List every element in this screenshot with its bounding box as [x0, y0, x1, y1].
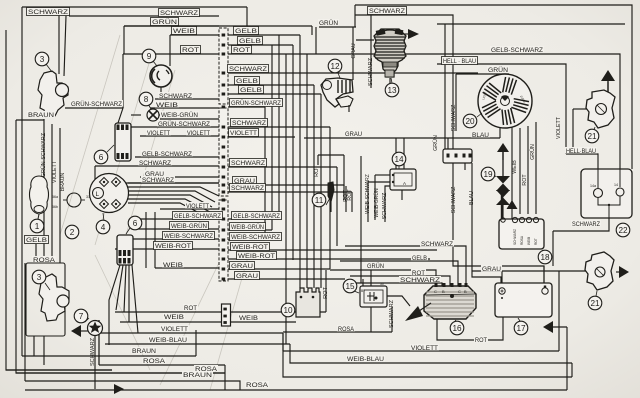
svg-text:GELB: GELB [236, 78, 258, 85]
svg-text:VIOLETT: VIOLETT [230, 130, 257, 137]
svg-text:12: 12 [330, 62, 340, 71]
svg-text:GELB: GELB [240, 87, 262, 94]
svg-text:SCHWARZ: SCHWARZ [232, 120, 266, 127]
svg-text:2: 2 [70, 228, 75, 237]
svg-text:VIOLETT: VIOLETT [186, 203, 209, 210]
svg-text:4: 4 [101, 223, 106, 232]
svg-text:SCHWARZ: SCHWARZ [142, 177, 174, 184]
svg-text:GRAU: GRAU [345, 131, 362, 138]
svg-text:ROT: ROT [475, 337, 487, 344]
svg-text:19: 19 [483, 170, 493, 179]
svg-text:GELB: GELB [412, 255, 427, 262]
svg-text:9: 9 [147, 52, 152, 61]
svg-text:3: 3 [37, 273, 42, 282]
svg-text:56b: 56b [52, 205, 58, 209]
svg-text:1: 1 [35, 222, 40, 231]
svg-text:GELB-SCHWARZ: GELB-SCHWARZ [491, 47, 543, 54]
svg-text:SCHWARZ: SCHWARZ [368, 57, 374, 86]
svg-text:GRÜN-SCHWARZ: GRÜN-SCHWARZ [71, 101, 122, 108]
svg-text:13: 13 [387, 86, 397, 95]
svg-text:L: L [96, 191, 100, 198]
svg-text:ROT: ROT [323, 287, 329, 299]
svg-text:BRAUN: BRAUN [28, 112, 54, 119]
svg-text:22: 22 [618, 226, 628, 235]
svg-text:15: 15 [345, 282, 355, 291]
svg-text:GRÜN-SCHWARZ: GRÜN-SCHWARZ [40, 132, 47, 177]
svg-text:6: 6 [133, 219, 138, 228]
svg-text:C: C [434, 289, 437, 294]
svg-text:VIOLETT: VIOLETT [161, 326, 188, 333]
svg-text:WEIB-ROT: WEIB-ROT [232, 244, 268, 251]
svg-text:SCHWARZ: SCHWARZ [231, 160, 265, 167]
svg-text:SCHWARZ: SCHWARZ [421, 241, 453, 248]
svg-text:ROT: ROT [314, 165, 320, 177]
svg-text:VIOLETT: VIOLETT [411, 345, 438, 352]
svg-text:GRÜN: GRÜN [319, 20, 338, 27]
svg-text:SCHWARZ: SCHWARZ [389, 299, 395, 328]
svg-text:GRÜN: GRÜN [529, 144, 536, 160]
svg-text:17: 17 [516, 324, 526, 333]
svg-text:WEIB-SCHWARZ: WEIB-SCHWARZ [231, 234, 280, 241]
svg-text:14a: 14a [590, 184, 596, 188]
svg-text:WEIB: WEIB [239, 315, 258, 322]
svg-text:GRAU: GRAU [236, 273, 258, 280]
svg-text:SCHWARZ: SCHWARZ [400, 277, 440, 284]
svg-text:20: 20 [465, 117, 475, 126]
svg-text:BRAUN: BRAUN [132, 348, 156, 355]
svg-text:WEIB-SCHWARZ: WEIB-SCHWARZ [164, 233, 213, 240]
svg-text:ROSA: ROSA [143, 358, 166, 365]
svg-text:VIOLETT: VIOLETT [52, 160, 58, 183]
svg-text:WEIB: WEIB [164, 314, 184, 321]
svg-text:ROT: ROT [182, 47, 199, 54]
svg-text:BRAUN: BRAUN [183, 372, 212, 379]
svg-text:21: 21 [587, 132, 597, 141]
svg-text:WEIB-ROT: WEIB-ROT [238, 253, 275, 260]
svg-text:GRÜN: GRÜN [488, 67, 508, 74]
svg-text:GELB-SCHWARZ: GELB-SCHWARZ [233, 213, 280, 220]
svg-text:SCHWARZ: SCHWARZ [231, 185, 264, 192]
svg-text:GELB-SCHWARZ: GELB-SCHWARZ [174, 213, 221, 220]
svg-text:GRÜN-SCHWARZ: GRÜN-SCHWARZ [231, 100, 281, 107]
svg-text:GELB: GELB [235, 28, 257, 35]
svg-text:SCHWARZ: SCHWARZ [139, 160, 171, 167]
svg-text:WEIB-ROT: WEIB-ROT [155, 243, 191, 250]
svg-text:21: 21 [590, 299, 600, 308]
svg-text:SCHWARZ: SCHWARZ [90, 337, 96, 366]
svg-text:ROSA: ROSA [246, 382, 269, 389]
svg-text:ROT: ROT [534, 238, 538, 245]
svg-text:SCHWARZ: SCHWARZ [369, 8, 405, 15]
svg-text:SCHWARZ: SCHWARZ [28, 9, 68, 16]
svg-text:SCHWARZ: SCHWARZ [451, 104, 457, 131]
svg-text:GELB: GELB [239, 38, 261, 45]
svg-text:ROT: ROT [522, 174, 528, 186]
svg-text:GELB-SCHWARZ: GELB-SCHWARZ [142, 151, 192, 158]
svg-text:ROT: ROT [184, 305, 197, 312]
svg-text:16: 16 [452, 324, 462, 333]
svg-text:6: 6 [99, 153, 104, 162]
svg-text:B: B [464, 289, 467, 294]
svg-text:11: 11 [315, 196, 324, 205]
svg-text:ROSA: ROSA [338, 326, 355, 333]
svg-text:C: C [458, 289, 461, 294]
svg-text:GRAU: GRAU [482, 266, 501, 273]
svg-text:GRÜN: GRÜN [367, 263, 384, 270]
svg-text:BLAU: BLAU [469, 191, 475, 205]
svg-text:7: 7 [79, 312, 84, 321]
svg-text:ROSA: ROSA [33, 257, 56, 264]
svg-text:14: 14 [394, 155, 404, 164]
svg-text:WEIB-GRÜN: WEIB-GRÜN [231, 224, 264, 231]
svg-text:GELB: GELB [26, 237, 47, 244]
svg-text:8: 8 [144, 95, 149, 104]
svg-text:ROT: ROT [233, 47, 250, 54]
svg-text:SCHWARZ: SCHWARZ [513, 229, 517, 245]
svg-text:WEIB: WEIB [173, 28, 195, 35]
svg-text:ROT: ROT [412, 270, 425, 277]
svg-text:18: 18 [540, 253, 550, 262]
svg-text:WEIB-SCHWARZ: WEIB-SCHWARZ [365, 174, 371, 214]
svg-text:WEIB: WEIB [527, 237, 531, 245]
svg-text:A: A [403, 181, 406, 186]
svg-text:GRÜN: GRÜN [432, 135, 439, 151]
svg-text:WEIB-GRÜN: WEIB-GRÜN [171, 223, 207, 230]
svg-text:VIOLETT: VIOLETT [556, 116, 562, 139]
svg-text:BLAU: BLAU [472, 132, 489, 139]
svg-text:WEIB: WEIB [512, 160, 518, 174]
svg-text:3: 3 [40, 55, 45, 64]
svg-text:GRÜN-SCHWARZ: GRÜN-SCHWARZ [158, 121, 210, 128]
svg-text:WEIB-GRÜN: WEIB-GRÜN [161, 112, 198, 119]
svg-text:B: B [442, 289, 445, 294]
svg-text:WEIB-GRÜN: WEIB-GRÜN [373, 188, 380, 218]
svg-text:VIOLETT: VIOLETT [187, 130, 210, 137]
svg-text:SCHWARZ: SCHWARZ [451, 186, 457, 213]
svg-text:SCHWARZ: SCHWARZ [572, 221, 600, 228]
svg-text:SCHWARZ: SCHWARZ [160, 10, 198, 17]
svg-text:B7: B7 [361, 289, 365, 293]
svg-text:GRÜN: GRÜN [152, 19, 177, 26]
svg-text:30: 30 [380, 282, 384, 286]
svg-text:WEIB: WEIB [156, 102, 178, 109]
svg-text:ROT: ROT [347, 189, 353, 201]
svg-text:SCHWARZ: SCHWARZ [159, 93, 192, 100]
svg-text:VIOLETT: VIOLETT [147, 130, 170, 137]
svg-text:14: 14 [614, 183, 618, 187]
svg-text:10: 10 [283, 306, 293, 315]
svg-text:BRAUN: BRAUN [60, 173, 66, 192]
svg-text:WEIB: WEIB [163, 262, 183, 269]
svg-text:GRAU: GRAU [351, 43, 357, 58]
svg-text:HELL·BLAU: HELL·BLAU [566, 148, 596, 155]
svg-text:HELL · BLAU: HELL · BLAU [443, 58, 476, 65]
svg-text:ROSA: ROSA [520, 235, 524, 245]
svg-text:GRAU: GRAU [231, 263, 253, 270]
svg-text:56a: 56a [52, 195, 58, 199]
svg-text:WEIB-BLAU: WEIB-BLAU [149, 337, 187, 344]
svg-text:WEIB-BLAU: WEIB-BLAU [347, 356, 384, 363]
svg-text:SCHWARZ: SCHWARZ [382, 192, 388, 219]
svg-text:SCHWARZ: SCHWARZ [229, 66, 267, 73]
